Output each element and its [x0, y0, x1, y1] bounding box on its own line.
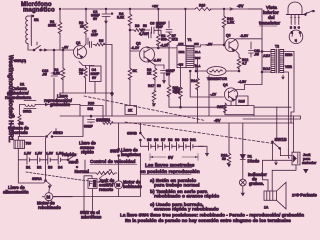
thermistor RT1: [207, 67, 226, 76]
svg-text:B9: B9: [175, 138, 179, 142]
svg-text:1MF: 1MF: [91, 33, 98, 37]
svg-text:grabación: grabación: [50, 102, 70, 107]
svg-text:VER: VER: [285, 65, 293, 69]
wire C2 line down to bus: [105, 24, 107, 116]
svg-text:R14: R14: [191, 79, 197, 83]
svg-text:T2: T2: [275, 45, 279, 49]
resistor R15 (emitter): [224, 103, 227, 113]
wire Q4 emitter network box: [230, 101, 232, 105]
svg-text:rebobinado: rebobinado: [38, 205, 61, 210]
wire battery left to power switch: [18, 160, 45, 183]
svg-text:del: del: [268, 15, 275, 20]
resistor R17 56 (stub with arrow): [152, 79, 156, 107]
svg-text:-.6V: -.6V: [62, 46, 69, 50]
svg-text:470: 470: [174, 91, 180, 95]
svg-text:B11: B11: [190, 138, 196, 142]
wire Q4 box line to right: [254, 106, 291, 108]
wire T2 secondary top to jack line: [284, 51, 294, 122]
switch SW1D: [46, 136, 48, 138]
arrow pointing to case: [304, 11, 313, 15]
svg-text:rápido: rápido: [81, 150, 94, 155]
svg-text:z=8·Parlante: z=8·Parlante: [292, 193, 317, 198]
lamp indicador de grabacion: [239, 179, 246, 186]
svg-text:M1: M1: [34, 18, 39, 22]
capacitor C10 50MF (bus coupling): [88, 116, 95, 123]
svg-text:SW3: SW3: [110, 149, 120, 154]
dashed mech link to SW1B: [125, 122, 273, 144]
svg-text:6V: 6V: [166, 73, 171, 77]
battery B1-B4 left row: [18, 152, 67, 170]
jack para auricular: [292, 152, 300, 165]
svg-text:50MF: 50MF: [84, 125, 93, 129]
capacitor C13 .05: [51, 73, 58, 76]
svg-text:1.5V: 1.5V: [24, 152, 32, 156]
resistor erase feed 20ohm: [20, 105, 26, 115]
resistor R4 5.6K: [129, 9, 131, 14]
svg-text:1.5K: 1.5K: [227, 21, 235, 25]
svg-text:Westinghouse Modelo H-25R1.: Westinghouse Modelo H-25R1.: [7, 55, 13, 143]
svg-text:-.9V: -.9V: [206, 43, 213, 47]
dashed mech link to power switch: [26, 172, 117, 184]
wire Q2 collector to T1 primary: [147, 47, 177, 48]
svg-text:R6: R6: [135, 24, 139, 28]
wire rheostat to motor bobinado: [118, 174, 120, 181]
svg-text:avance rápida y rebobinado: avance rápida y rebobinado: [154, 206, 219, 212]
svg-text:borrado: borrado: [12, 130, 28, 135]
svg-text:Q3: Q3: [226, 34, 231, 38]
resistor R1 100K: [59, 9, 61, 50]
svg-text:1K: 1K: [128, 109, 133, 113]
wire SW1D to bus: [56, 116, 83, 137]
wire T1 secondary top to Q3 base: [194, 45, 225, 47]
resistor R14: [194, 58, 198, 79]
svg-text:R5: R5: [99, 39, 103, 43]
resistor R7: [168, 32, 170, 33]
rheostat R19 speed control: [85, 160, 96, 173]
svg-text:B6: B6: [154, 138, 158, 142]
svg-text:SW1B: SW1B: [275, 137, 287, 142]
svg-text:micrófono: micrófono: [81, 215, 102, 220]
svg-text:Diodo: Diodo: [248, 159, 260, 164]
ground arrow below T2: [282, 75, 284, 79]
svg-text:M: M: [116, 183, 120, 188]
svg-text:1K: 1K: [80, 25, 85, 29]
resistor R20 561 (box): [80, 106, 103, 117]
svg-text:grabac.: grabac.: [249, 181, 264, 186]
motor de bobinado: [115, 181, 123, 189]
svg-text:para trabajo normal: para trabajo normal: [154, 183, 200, 189]
svg-text:56: 56: [157, 84, 161, 88]
wire bus 1: [60, 116, 301, 119]
capacitor C7 4.7MF: [149, 32, 152, 38]
wire battery end stub: [199, 146, 209, 156]
svg-text:La llave SW4 tiene tres posici: La llave SW4 tiene tres posiciones: rebo…: [120, 213, 304, 218]
svg-text:R10: R10: [199, 4, 205, 8]
svg-text:561: 561: [88, 107, 94, 111]
resistor R10 56 ohm (in rail): [195, 7, 211, 10]
svg-text:R15: R15: [239, 100, 245, 104]
svg-text:AZU: AZU: [263, 54, 271, 58]
wire Q2 base: [130, 50, 140, 52]
wire Q3 collector to right rail: [235, 39, 263, 40]
svg-text:bobinado: bobinado: [123, 184, 142, 189]
svg-text:C6: C6: [150, 22, 154, 26]
svg-text:SW4C: SW4C: [69, 161, 79, 165]
wire head line from mic node down: [53, 50, 55, 105]
node rail junctions: [59, 8, 61, 10]
svg-text:SW4A: SW4A: [32, 177, 42, 181]
svg-text:lengüetas: lengüetas: [121, 152, 141, 157]
capacitor C9 30MF (emitter bypass): [155, 65, 168, 83]
svg-text:-9V: -9V: [237, 4, 244, 9]
svg-text:SW1(C): SW1(C): [14, 59, 26, 63]
svg-text:ROJ: ROJ: [195, 56, 201, 60]
wire top supply rail: [62, 8, 262, 10]
svg-text:auricular: auricular: [302, 161, 317, 165]
wire emitter return line: [60, 92, 113, 94]
svg-text:B7: B7: [161, 138, 165, 142]
wire remote jack loop: [84, 176, 93, 212]
svg-text:-8.5V: -8.5V: [240, 34, 249, 38]
diode D1: [242, 123, 244, 155]
resistor R2 2.5K (base bias lower): [62, 50, 64, 68]
svg-text:Rápida: Rápida: [62, 152, 77, 157]
svg-text:B: B: [295, 39, 297, 43]
transformer T1: [177, 38, 201, 68]
microphone M1 coil: [26, 16, 28, 44]
transistor Q4: [224, 88, 237, 101]
transformer T2: [263, 45, 293, 74]
svg-text:.05: .05: [42, 73, 47, 77]
svg-text:TERMISTOR: TERMISTOR: [207, 77, 227, 81]
svg-text:Control de velocidad: Control de velocidad: [90, 159, 136, 164]
resistor R6 (to C6): [129, 29, 131, 31]
transistor Q2: [140, 47, 155, 62]
svg-text:SW1A: SW1A: [96, 118, 108, 123]
wire T1 core to rail: [184, 9, 186, 46]
wire SW4B feed from busB: [139, 123, 141, 132]
transistor Q1: [74, 46, 87, 59]
svg-text:magnético: magnético: [23, 8, 55, 14]
svg-text:R20: R20: [88, 102, 94, 106]
wire bus 2 with resistor at left end: [103, 116, 293, 124]
wire thermistor node to bus: [208, 76, 210, 117]
wire T2 primary top: [262, 50, 271, 52]
capacitor C4 30MF (emitter bypass): [90, 66, 102, 82]
transistor Q3: [225, 38, 238, 51]
wire right vertical supply: [261, 9, 263, 85]
svg-text:-9V: -9V: [214, 118, 221, 123]
svg-text:NEG: NEG: [285, 53, 293, 57]
wire T1 primary bottom down: [177, 65, 181, 88]
wire SW1B feed: [276, 107, 278, 139]
svg-text:Q1: Q1: [76, 41, 81, 45]
switch SW1(C) in mic line: [34, 46, 43, 51]
svg-text:remoto: remoto: [99, 187, 114, 192]
wire motor return to SW4B: [84, 153, 140, 196]
svg-text:E: E: [290, 26, 292, 30]
capacitor C6 2.2MF: [152, 27, 162, 35]
svg-text:9K: 9K: [133, 69, 138, 73]
svg-text:1K2: 1K2: [172, 38, 178, 42]
svg-text:B3: B3: [48, 166, 52, 170]
wire erase head bottom to battery: [17, 149, 19, 160]
resistor box 1K: [125, 106, 137, 115]
svg-text:+: +: [111, 12, 113, 16]
svg-text:En la posición de parado no ha: En la posición de parado no hay conexión…: [125, 218, 291, 223]
svg-text:Q4: Q4: [223, 83, 228, 87]
svg-text:C: C: [298, 26, 300, 30]
svg-text:1A: 1A: [264, 206, 269, 210]
resistor R7b bias lower: [129, 51, 131, 68]
svg-text:-1.2V: -1.2V: [131, 46, 140, 50]
svg-text:T1: T1: [188, 38, 192, 42]
svg-text:4.7: 4.7: [242, 62, 247, 66]
wire Q1 collector: [84, 44, 86, 47]
svg-text:GRI: GRI: [194, 42, 199, 46]
transistor case outline (side view): [288, 2, 302, 14]
svg-text:Indicador: Indicador: [248, 172, 267, 177]
wire secondary bottom to Q4 base: [190, 71, 223, 97]
wire SW3 to motor bobinado: [118, 161, 120, 181]
capacitor C5 + resistor R5 series (feedback): [88, 38, 95, 48]
wire Q4 collector: [234, 85, 262, 92]
svg-text:B10: B10: [182, 138, 188, 142]
svg-text:rebobinado o avance rápido: rebobinado o avance rápido: [154, 193, 219, 199]
svg-text:-4.5V: -4.5V: [238, 80, 247, 84]
capacitor C8 coupling: [166, 21, 172, 32]
svg-text:-1.5V: -1.5V: [153, 59, 162, 63]
wire mic line to Q1 base: [28, 49, 74, 51]
svg-text:R17: R17: [148, 84, 154, 88]
svg-text:56: 56: [222, 157, 226, 161]
switch avance rapido: [67, 159, 69, 161]
svg-text:SW1D: SW1D: [53, 131, 63, 135]
wire SW1D down to power switch: [45, 138, 47, 180]
svg-text:.05: .05: [254, 53, 259, 57]
svg-text:360Ω: 360Ω: [23, 110, 32, 114]
svg-text:5.6K: 5.6K: [117, 16, 125, 20]
wire jack to speaker: [272, 165, 296, 191]
svg-text:1K: 1K: [147, 72, 152, 76]
resistor R8 560 (rail to collector node): [157, 9, 159, 34]
svg-text:1.5V: 1.5V: [46, 152, 54, 156]
svg-text:B1: B1: [26, 166, 30, 170]
wire erase head top to SW1D: [18, 137, 44, 141]
svg-text:B8: B8: [168, 138, 172, 142]
svg-text:alimentación: alimentación: [3, 190, 29, 195]
svg-text:MAR: MAR: [179, 50, 185, 54]
wire Q1 emitter: [79, 62, 94, 66]
wire thermistor to R12 node: [226, 70, 239, 72]
wire Q2 emitter: [150, 62, 155, 69]
resistor R16 56: [228, 123, 230, 153]
svg-text:6V: 6V: [92, 76, 97, 80]
jack de control remoto: [88, 179, 97, 189]
svg-text:780: 780: [26, 142, 32, 146]
svg-text:1.5V: 1.5V: [35, 152, 43, 156]
resistor R12 (Q3 emitter): [236, 51, 239, 57]
svg-text:AZU: AZU: [178, 42, 183, 46]
wire T1 secondary bottom: [194, 65, 207, 72]
svg-text:B2: B2: [37, 166, 41, 170]
resistor R9 1K (Q2 emitter): [153, 68, 157, 80]
svg-text:+9V: +9V: [152, 5, 159, 9]
dashed mech link upper: [84, 96, 205, 121]
battery B5-B11 middle row: [140, 138, 204, 150]
switch SW3 lenguetas: [118, 123, 120, 149]
wire T2 primary bottom: [262, 71, 271, 73]
svg-text:560: 560: [161, 38, 167, 42]
transistor pin view circle: [289, 30, 303, 44]
node rail label -9V: [230, 8, 233, 10]
svg-text:-.1V: -.1V: [210, 93, 217, 97]
wire jack feed: [292, 116, 294, 152]
svg-text:5MF: 5MF: [156, 25, 163, 29]
power switch SW4A: [45, 180, 47, 182]
svg-text:B4: B4: [58, 166, 62, 170]
solid marker triangle: [303, 169, 309, 174]
resistor R13: [179, 87, 183, 99]
9V bracket annotation: [150, 154, 198, 161]
svg-text:E: E: [291, 31, 293, 35]
svg-text:4,7MF: 4,7MF: [139, 32, 149, 36]
svg-text:M: M: [46, 195, 50, 200]
capacitor C11: [249, 42, 254, 57]
svg-text:ROJ: ROJ: [263, 67, 270, 71]
svg-text:Q2: Q2: [136, 42, 141, 46]
resistor R4 75 (emitter): [84, 68, 87, 78]
wire T2 secondary bottom: [284, 72, 290, 158]
resistor R11: [167, 85, 171, 97]
svg-text:100K: 100K: [48, 24, 57, 28]
resistor R3 1K: [85, 9, 87, 44]
svg-text:SW4B: SW4B: [127, 132, 137, 136]
wire C5 node down to bus: [111, 45, 113, 117]
svg-text:56: 56: [143, 24, 147, 28]
wire emitter box to bus: [253, 115, 255, 116]
svg-text:B5: B5: [147, 138, 151, 142]
speaker / parlante: [264, 191, 277, 200]
svg-text:transistor: transistor: [259, 21, 280, 26]
capacitor C2 30MF: [102, 9, 110, 24]
motor de rebobinado: [45, 193, 53, 201]
svg-text:BLA: BLA: [195, 50, 200, 54]
svg-text:9V: 9V: [168, 155, 173, 160]
resistor R18 1.5K (rail to base): [223, 9, 225, 16]
svg-text:6V: 6V: [93, 17, 98, 21]
svg-text:C: C: [299, 31, 301, 35]
svg-text:R15: R15: [217, 105, 223, 109]
svg-text:B: B: [294, 26, 296, 30]
svg-text:75: 75: [79, 72, 83, 76]
